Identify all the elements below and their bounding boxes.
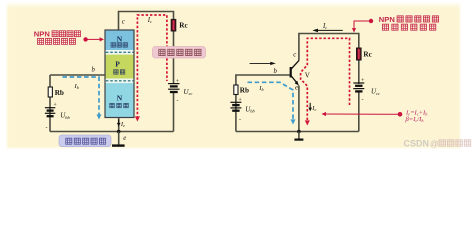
blue arrow head (right circuit, down) [291,119,296,124]
label 集电区 [111,43,128,48]
svg-text:Rc: Rc [363,51,372,59]
wire: left circuit bottom [50,131,174,133]
svg-text:β=Ic/Ib: β=Ic/Ib [405,116,424,123]
resistor Rb (right circuit) [234,85,238,95]
node: emitter junction (right circuit) [297,130,301,134]
transistor V (symbol) [291,60,300,85]
arrow into base (right circuit) [250,62,276,65]
svg-text:N: N [117,35,123,44]
blue dashed base-current path (right circuit) [248,82,294,120]
arrow Ie (left circuit) [117,120,121,127]
ground bar (right circuit) [294,139,303,141]
svg-text:-: - [239,118,241,124]
svg-text:+: + [176,79,180,85]
battery Ubb (left circuit) [45,108,55,117]
battery Ucc (left circuit) [168,84,179,92]
wire: left circuit left branch (Rb / Ubb) [49,75,51,132]
svg-text:-: - [362,98,364,104]
svg-text:V: V [305,71,310,79]
node: emitter junction (left circuit) [117,130,121,134]
junction band 1 [105,50,134,55]
transistor structure box: P base region [105,55,134,79]
svg-text:-: - [177,98,179,104]
svg-text:Rb: Rb [55,89,64,97]
blue arrow head (left circuit, down) [97,114,102,119]
annotation connector dot+elbow arrow (right) [352,19,373,33]
wire: base wire b [50,74,105,76]
blue dashed base-current path (left circuit) [63,77,100,115]
resistor Rc (right circuit) [357,48,362,60]
formula connector dot+arrow [322,112,403,117]
svg-text:@: @ [430,138,439,148]
cream panel background [7,3,460,148]
svg-text:P: P [115,60,120,69]
wire: right circuit emitter vertical [298,86,300,132]
ground stub (left circuit) [118,132,120,146]
label box 发射结正偏 [59,135,111,147]
svg-text:b: b [274,68,278,75]
wire: right circuit right branch below battery [358,92,360,132]
resistor Rb (left circuit) [48,87,52,97]
label box 集电结反偏 [153,47,206,59]
battery Ubb (right circuit) [230,102,241,110]
red dashed collector-current path (left circuit) [137,15,167,119]
wire: left circuit top (collector to Rc branch) [119,12,174,85]
svg-text:Rb: Rb [240,87,249,95]
arrow Ie (right circuit) [308,103,312,112]
wire: emitter wire [118,118,120,132]
svg-text:b: b [92,66,96,73]
svg-text:c: c [293,51,296,58]
wire: right circuit bottom [236,131,359,133]
svg-text:e: e [123,135,126,142]
label 基区 [114,70,125,75]
ground bar (left circuit) [112,144,125,146]
structure box border [105,30,134,118]
svg-text:NPN: NPN [379,15,395,24]
wire: right circuit collector vertical + top [299,34,359,85]
transistor structure box: N emitter region [105,83,134,117]
arrow Ic top (right circuit) [312,29,342,33]
svg-text:-: - [46,125,48,131]
label 发射区 [110,103,129,108]
battery Ucc (right circuit) [353,83,364,91]
transistor structure box: N collector region [105,30,134,50]
red arrow head (right circuit, down) [305,120,310,125]
wire: left circuit right branch below battery [173,92,175,132]
annotation connector dot+arrow (left) [83,37,104,41]
resistor Rc (left circuit) [171,19,176,31]
svg-text:N: N [117,94,123,103]
svg-text:CSDN: CSDN [404,138,430,148]
svg-text:NPN: NPN [34,30,50,39]
svg-text:c: c [122,18,125,25]
wire: right circuit left branch + base [236,75,291,132]
junction band 2 [105,79,134,84]
ground stub (right circuit) [298,132,300,140]
red arrow head (left circuit, down) [135,116,140,121]
svg-text:Rc: Rc [179,21,188,29]
red dashed collector-current path (right circuit) [301,38,350,121]
svg-text:e: e [295,84,298,91]
